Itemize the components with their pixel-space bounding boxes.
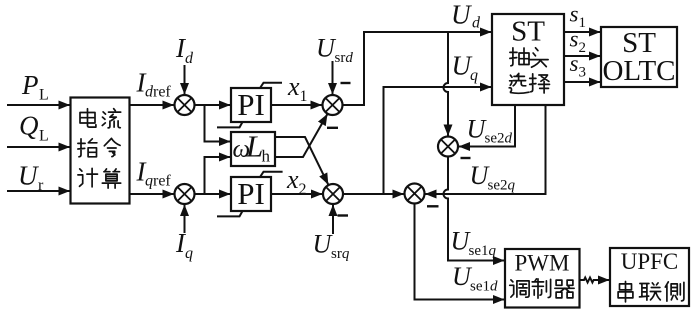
wire U_se2d from ST to S3 [459,106,516,147]
svg-text:se2d: se2d [485,131,513,147]
svg-text:UPFC: UPFC [621,249,679,274]
node M2 multiplier [175,184,195,204]
svg-text:Q: Q [19,111,39,141]
svg-text:2: 2 [299,181,307,198]
minus at S1 diagonal input [327,127,338,129]
svg-text:srd: srd [335,50,354,66]
svg-text:s: s [570,27,579,52]
wire I_d drop [184,65,186,95]
wire wLh out1 cross to S2 [275,137,328,185]
svg-text:x: x [287,72,300,101]
svg-text:se1q: se1q [469,243,497,259]
node S4 summing [405,184,425,204]
node S1 summing [323,95,343,115]
svg-text:ST: ST [511,16,545,48]
wire U_se2q from ST to S4 [425,106,546,195]
svg-text:x: x [286,165,299,194]
wire wLh out2 cross to S1 [275,114,328,157]
wire S1 out to U_d rail to ST [343,32,492,105]
box PWM modulator [505,249,580,308]
limiter PI1 [217,83,282,128]
wire branch d to wLh [205,105,231,142]
svg-text:r: r [38,177,44,194]
wire I_q rise [184,205,186,234]
svg-text:P: P [21,70,39,100]
svg-text:U: U [18,161,39,191]
box current command calc [71,98,130,204]
minus at S1 top input [341,82,351,84]
minus at S2 bottom input [338,214,349,216]
svg-text:s: s [570,51,579,76]
node S2 summing [323,184,343,204]
wire s1 [564,31,601,33]
svg-text:3: 3 [579,65,587,81]
box ST OLTC [601,27,677,87]
box PI1 [231,88,271,122]
limiter PI2 [217,172,283,217]
wire S2 out to S4 [344,193,405,195]
svg-text:OLTC: OLTC [602,55,675,87]
wire M2 to PI2 [195,193,231,195]
svg-text:L: L [39,128,49,145]
node S3 summing [438,137,458,157]
minus at S3 right input [461,157,471,159]
svg-text:U: U [451,0,472,30]
box UPFC series [610,248,689,306]
wire U_d branch down with hop to S3 [444,32,449,136]
wire s3 [564,81,601,83]
box ST tap select [492,14,564,105]
wire PWM squiggle to UPFC [580,278,610,283]
wire U_srd drop [332,61,334,95]
wire U_srq rise [332,205,334,235]
svg-text:se2q: se2q [488,178,516,194]
svg-text:h: h [262,147,271,166]
node M1 multiplier [175,95,195,115]
wire I_dref [130,104,175,106]
svg-text:s: s [570,2,579,27]
svg-text:q: q [185,245,193,262]
svg-text:PWM: PWM [515,251,570,276]
svg-text:se1d: se1d [470,279,498,295]
wire U_r input [7,190,70,192]
wire S4 out down to PWM (U_se1d) [415,204,505,300]
svg-text:PI: PI [237,87,265,122]
svg-text:qref: qref [145,173,171,190]
wire U_q tap up and right to ST [384,87,492,194]
svg-text:1: 1 [579,15,587,31]
svg-text:L: L [245,129,263,164]
svg-text:srq: srq [331,246,350,262]
svg-text:dref: dref [145,84,171,101]
svg-text:d: d [472,15,481,32]
svg-text:q: q [470,67,478,84]
minus at S4 right input [427,205,439,207]
svg-text:d: d [185,50,194,67]
wire branch q to wLh [205,157,231,194]
box PI2 [231,177,271,211]
wire I_qref [130,193,175,195]
svg-text:1: 1 [300,88,308,105]
wire PI2 to S2 [271,193,323,195]
svg-text:L: L [39,87,49,104]
wire P_L input [7,104,70,106]
wire s2 [564,55,601,57]
svg-text:2: 2 [579,40,587,56]
svg-text:PI: PI [237,176,265,211]
wire Q_L input [7,146,70,148]
box wLh [231,132,275,166]
wire S3 out down with hop to PWM (U_se1q) [444,157,505,261]
wire PI1 to S1 [271,104,322,106]
wire M1 to PI1 [195,104,231,106]
